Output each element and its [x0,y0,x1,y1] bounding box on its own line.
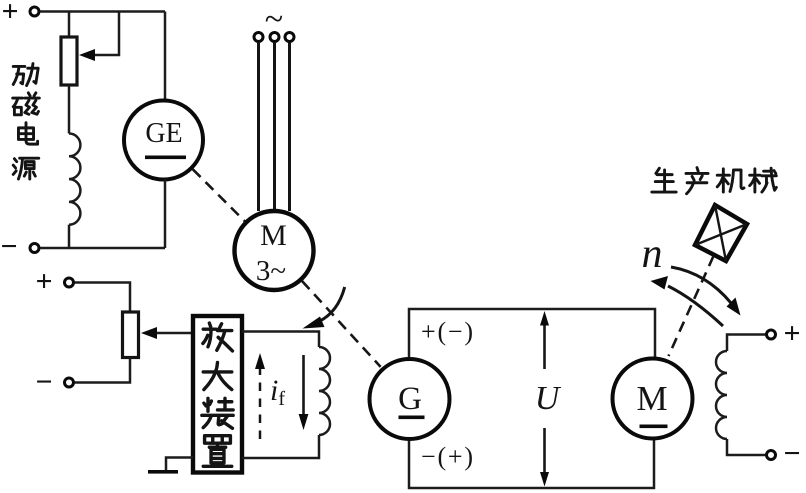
svg-text:M: M [636,379,667,418]
motor M circle [613,359,693,439]
load symbol diagonal 1 [715,205,726,261]
M armature underline [640,425,668,429]
svg-text:GE: GE [145,118,182,149]
wire amplifier to R2 wiper [155,332,193,335]
voltage arrowhead up [540,311,549,326]
svg-text:−: − [35,366,52,399]
label 电 [18,123,37,144]
wire M field top [727,335,766,352]
rotation arc upper (to the right) [671,267,731,303]
wire armature loop top [409,309,655,359]
dashed feedback arrow shaft [259,363,262,439]
wire GE bottom to bottom bus [164,180,167,249]
rheostat R1 wiper arrowhead [79,49,95,61]
wire phase A [257,43,260,212]
terminal T4 [65,378,74,387]
wire T3 to R2 top [75,283,131,313]
wire phase B [273,43,276,211]
GE armature underline [145,156,186,160]
ground bar [148,470,178,474]
label 源 [13,158,39,179]
terminal phase C [285,33,294,42]
wire field loop top [242,332,319,348]
wire T4 to R2 bottom [75,358,131,383]
wire bottom bus [41,247,166,250]
shaft M to load (dashed) [669,256,714,356]
terminal phase B [270,33,279,42]
rotation arc near M3~ shaft [319,287,345,322]
terminal T5 (+) [767,330,776,339]
label 产 [686,168,708,194]
terminal T2 (− of excitation source) [30,244,39,253]
terminal T3 [65,278,74,287]
svg-text:M: M [260,219,287,252]
wire field loop bottom [242,435,319,458]
voltage arrowhead down [540,472,549,487]
svg-text:U: U [535,380,562,417]
amplifier box 放大装置 [193,316,242,473]
shaft GE to M3~ (dashed) [193,169,245,221]
label 磁 [13,93,40,115]
label 械 [750,168,777,192]
terminal phase A [254,33,263,42]
svg-text:G: G [398,381,422,417]
wire junction down to rheostat R1 [68,12,71,38]
wire M field bottom [727,439,766,455]
svg-text:+(−): +(−) [421,317,475,346]
svg-text:−: − [0,230,17,263]
rheostat R2 body [123,312,139,358]
wire armature loop bottom [409,438,654,488]
terminal T6 (−) [767,451,776,460]
label 机 [717,169,744,192]
motor M 3~ circle [235,211,314,290]
load symbol diagonal 2 [695,224,747,245]
rotation arc arrowhead [303,317,325,329]
rotation arc lower (to the left) [668,286,723,326]
wire R1 bottom to inductor L1 [68,85,71,134]
wire top bus down to GE [164,12,167,102]
generator field winding LF (4 right bumps) [319,347,330,435]
rheostat R1 body [61,37,77,85]
svg-text:3~: 3~ [256,255,286,287]
wire top bus [41,10,166,13]
rotation arrowhead left [651,276,669,290]
label 生 [652,168,676,192]
svg-text:−(+): −(+) [421,442,475,471]
label 励 [13,64,38,86]
field current arrow (down) [302,355,305,417]
G armature underline [399,416,425,420]
label 装 [202,398,233,428]
svg-text:+: + [1,0,18,28]
svg-text:+: + [35,265,52,298]
load symbol (production machine) outline [695,205,747,261]
generator G circle [370,359,450,439]
inductor L1 (excitation winding, 4 right bumps) [69,134,80,225]
voltage arrow down shaft [543,428,546,473]
label 置 [203,436,232,467]
svg-text:−: − [783,437,800,470]
wire L1 bottom to bottom bus [68,225,71,248]
wire phase C [288,43,291,212]
label 放 [203,323,233,351]
field current arrowhead [299,414,309,430]
motor field winding (4 left bumps) [716,351,727,439]
R2 wiper arrowhead [141,327,157,339]
label 大 [203,362,232,389]
dashed feedback arrowhead (up) [255,353,265,369]
exciter GE circle [124,101,203,180]
voltage arrow up shaft [543,324,546,369]
rotation arrowhead right [727,298,741,316]
shaft M3~ to G (dashed) [302,281,381,367]
terminal T1 (+ of excitation source) [30,7,39,16]
ground wire [166,458,193,471]
rheostat R1 wiper wire [93,12,119,56]
svg-text:n: n [642,231,663,277]
svg-text:+: + [783,317,800,350]
